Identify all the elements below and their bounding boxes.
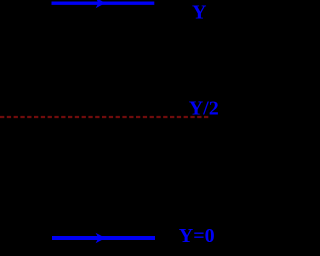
svg-text:Y=0: Y=0 xyxy=(179,225,215,247)
svg-text:Y: Y xyxy=(192,1,207,23)
svg-text:Y/2: Y/2 xyxy=(189,97,219,119)
